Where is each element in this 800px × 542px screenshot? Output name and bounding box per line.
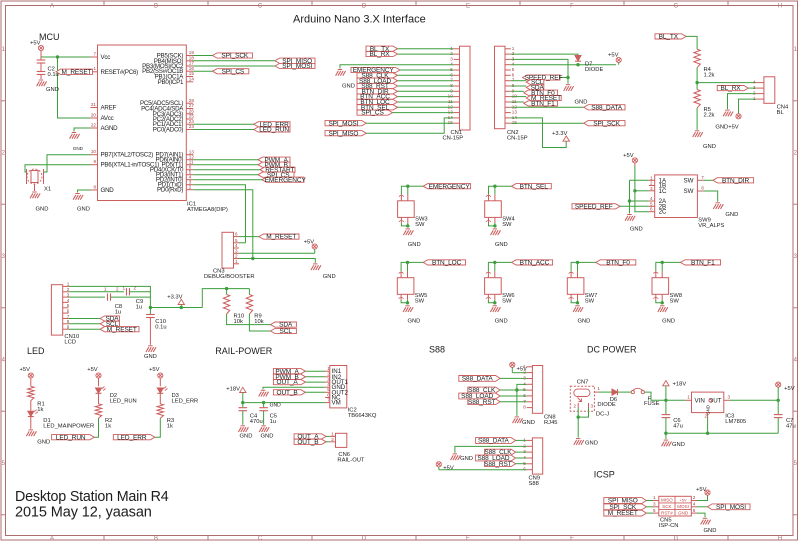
svg-text:EMERGENCY: EMERGENCY	[429, 183, 471, 190]
svg-text:BL: BL	[777, 110, 785, 116]
svg-text:1u: 1u	[136, 304, 142, 310]
svg-text:RJ45: RJ45	[544, 420, 558, 426]
svg-text:GND: GND	[261, 433, 274, 439]
svg-text:SPI_MOSI: SPI_MOSI	[282, 63, 312, 70]
svg-text:5: 5	[650, 201, 653, 206]
svg-text:GND: GND	[144, 354, 157, 360]
svg-text:SPI_MISO: SPI_MISO	[328, 130, 358, 137]
svg-text:5: 5	[653, 508, 656, 513]
svg-text:VIN: VIN	[695, 398, 705, 405]
svg-text:MOSI: MOSI	[677, 504, 689, 509]
svg-text:1: 1	[687, 395, 690, 400]
svg-text:8: 8	[93, 185, 96, 190]
svg-text:+5V: +5V	[149, 367, 160, 373]
svg-text:SCK: SCK	[662, 504, 672, 509]
svg-text:4: 4	[753, 80, 756, 85]
svg-text:23: 23	[189, 124, 195, 129]
svg-text:+5V: +5V	[623, 153, 634, 159]
svg-text:SCL: SCL	[280, 328, 293, 335]
svg-text:SPI_SCK: SPI_SCK	[221, 53, 249, 60]
svg-text:GND: GND	[37, 439, 50, 445]
svg-text:+5V: +5V	[696, 487, 707, 493]
svg-text:2: 2	[134, 285, 137, 290]
svg-text:AREF: AREF	[101, 105, 117, 112]
svg-text:SPI_CS: SPI_CS	[222, 68, 245, 75]
svg-text:GND: GND	[522, 420, 535, 426]
svg-text:2: 2	[705, 414, 708, 419]
svg-text:GND: GND	[575, 100, 588, 106]
svg-text:GND: GND	[495, 242, 508, 248]
svg-text:S88_RST: S88_RST	[484, 461, 512, 468]
svg-text:17: 17	[189, 61, 195, 66]
svg-text:SPI_MOSI: SPI_MOSI	[716, 504, 746, 511]
svg-text:7: 7	[327, 397, 330, 402]
svg-text:SPI_MOSI: SPI_MOSI	[328, 120, 358, 127]
svg-text:ATMEGA8(DIP): ATMEGA8(DIP)	[187, 207, 228, 213]
svg-text:SW: SW	[415, 299, 425, 305]
svg-text:SPEED_REF: SPEED_REF	[575, 203, 613, 210]
svg-text:BTN_F1: BTN_F1	[691, 260, 715, 267]
svg-text:1u: 1u	[115, 309, 121, 315]
svg-text:GND: GND	[101, 187, 115, 194]
svg-text:+5V: +5V	[443, 466, 454, 472]
svg-text:A: A	[50, 536, 54, 542]
svg-text:S88: S88	[529, 481, 539, 487]
svg-text:2.2k: 2.2k	[704, 113, 715, 119]
svg-text:1: 1	[123, 285, 126, 290]
svg-text:DC-J: DC-J	[596, 412, 609, 418]
svg-text:+5V: +5V	[20, 367, 31, 373]
svg-text:1.2k: 1.2k	[704, 73, 715, 79]
svg-text:BL_TX: BL_TX	[659, 34, 679, 41]
svg-text:SPI_CS: SPI_CS	[361, 110, 384, 117]
svg-text:2: 2	[523, 443, 526, 448]
svg-text:FUSE: FUSE	[644, 401, 660, 407]
svg-text:MCU: MCU	[39, 32, 60, 42]
svg-text:AVcc: AVcc	[101, 115, 114, 122]
svg-text:14: 14	[189, 77, 195, 82]
svg-text:LM7805: LM7805	[725, 419, 746, 425]
svg-text:+18V: +18V	[673, 381, 687, 387]
svg-text:S88: S88	[429, 345, 445, 355]
svg-text:S88_DATA: S88_DATA	[462, 376, 494, 383]
svg-text:GND: GND	[704, 528, 717, 534]
svg-text:EMERGENCY: EMERGENCY	[265, 177, 307, 184]
svg-text:4: 4	[67, 298, 70, 303]
svg-text:OUT_B: OUT_B	[297, 439, 318, 446]
svg-text:13: 13	[512, 110, 518, 115]
svg-text:8: 8	[701, 186, 704, 191]
svg-text:+5V: +5V	[304, 240, 315, 246]
svg-text:GND: GND	[495, 319, 508, 325]
svg-text:9: 9	[93, 159, 96, 164]
svg-text:MISO: MISO	[661, 497, 673, 502]
svg-text:47u: 47u	[786, 423, 796, 429]
svg-text:3: 3	[753, 85, 756, 90]
svg-text:A: A	[50, 3, 54, 9]
svg-text:PB0(ICP1: PB0(ICP1	[158, 79, 184, 86]
svg-text:BTN_SEL: BTN_SEL	[520, 183, 549, 190]
svg-text:6: 6	[693, 508, 696, 513]
svg-text:D: D	[362, 536, 367, 542]
svg-text:6: 6	[235, 232, 238, 237]
svg-text:0.1u: 0.1u	[155, 324, 166, 330]
svg-text:2: 2	[650, 181, 653, 186]
svg-text:LED_RUN: LED_RUN	[259, 127, 289, 134]
svg-text:+5V: +5V	[679, 497, 687, 502]
svg-text:1: 1	[523, 364, 526, 369]
svg-text:2: 2	[331, 437, 334, 442]
svg-text:BTN_F1: BTN_F1	[531, 100, 555, 107]
svg-text:DEBUG/BOOSTER: DEBUG/BOOSTER	[204, 274, 255, 280]
svg-text:1: 1	[597, 386, 600, 391]
svg-text:GND: GND	[577, 319, 590, 325]
svg-text:+3.3V: +3.3V	[167, 294, 182, 300]
svg-text:LED_ERR: LED_ERR	[172, 398, 199, 404]
svg-text:LED: LED	[27, 346, 45, 356]
svg-text:DC POWER: DC POWER	[587, 345, 637, 355]
svg-text:OUT_B: OUT_B	[277, 389, 298, 396]
svg-text:VM: VM	[332, 400, 341, 407]
svg-text:GND: GND	[73, 146, 84, 151]
svg-text:DIODE: DIODE	[585, 67, 603, 73]
svg-text:4: 4	[650, 196, 653, 201]
svg-text:SPI_SCK: SPI_SCK	[593, 120, 621, 127]
svg-text:GND: GND	[460, 456, 473, 462]
svg-text:GND: GND	[630, 227, 643, 233]
svg-text:H: H	[778, 536, 782, 542]
svg-text:S88_DATA: S88_DATA	[478, 438, 510, 445]
svg-text:PB7(XTAL2/TOSC2): PB7(XTAL2/TOSC2)	[101, 152, 154, 159]
svg-text:RESET#(PC6): RESET#(PC6)	[101, 69, 139, 76]
svg-text:GND: GND	[678, 510, 689, 515]
svg-text:1: 1	[512, 46, 515, 51]
svg-text:20: 20	[91, 113, 97, 118]
svg-text:PD0(RxD): PD0(RxD)	[157, 187, 183, 194]
svg-text:BL_RX: BL_RX	[369, 51, 390, 58]
svg-text:3: 3	[650, 186, 653, 191]
svg-text:6: 6	[512, 72, 515, 77]
svg-text:PC0(ADC0): PC0(ADC0)	[153, 127, 184, 134]
svg-text:SW: SW	[670, 299, 680, 305]
svg-text:SW: SW	[585, 299, 595, 305]
svg-text:1C: 1C	[659, 188, 667, 195]
svg-text:SW: SW	[684, 188, 694, 195]
svg-text:3: 3	[728, 395, 731, 400]
svg-text:GND: GND	[323, 274, 336, 280]
svg-text:+5V: +5V	[608, 53, 619, 59]
svg-text:7: 7	[701, 175, 704, 180]
svg-text:DIODE: DIODE	[597, 402, 615, 408]
svg-text:CN7: CN7	[577, 380, 589, 386]
svg-text:6: 6	[650, 207, 653, 212]
svg-text:GND: GND	[77, 207, 90, 213]
svg-text:C: C	[258, 3, 263, 9]
svg-text:GND: GND	[672, 442, 685, 448]
svg-text:AGND: AGND	[101, 125, 119, 132]
svg-text:10k: 10k	[254, 319, 263, 325]
svg-text:5: 5	[67, 303, 70, 308]
svg-text:SW: SW	[415, 222, 425, 228]
svg-text:GND: GND	[408, 242, 421, 248]
svg-text:S88_DATA: S88_DATA	[591, 104, 623, 111]
svg-text:3: 3	[450, 56, 453, 61]
svg-text:RST#: RST#	[661, 510, 673, 515]
svg-text:CN-15P: CN-15P	[443, 136, 464, 142]
svg-text:GND: GND	[703, 144, 716, 150]
svg-text:SW: SW	[684, 177, 694, 184]
svg-text:M_RESET: M_RESET	[61, 69, 91, 76]
svg-text:+18V: +18V	[226, 387, 240, 393]
svg-text:LCD: LCD	[64, 340, 76, 346]
svg-text:1: 1	[235, 259, 238, 264]
svg-text:7: 7	[93, 52, 96, 57]
svg-text:2: 2	[116, 287, 119, 292]
svg-text:SW: SW	[502, 222, 512, 228]
svg-text:+5V: +5V	[87, 367, 98, 373]
svg-text:6: 6	[523, 393, 526, 398]
svg-text:LED_RUN: LED_RUN	[110, 398, 137, 404]
svg-text:SW: SW	[502, 299, 512, 305]
svg-text:GND: GND	[240, 433, 253, 439]
svg-text:G: G	[674, 3, 679, 9]
svg-text:4: 4	[523, 381, 526, 386]
svg-text:4: 4	[235, 243, 238, 248]
svg-text:1k: 1k	[167, 423, 173, 429]
svg-text:1: 1	[104, 287, 107, 292]
svg-text:15: 15	[189, 71, 195, 76]
svg-text:X1: X1	[44, 187, 51, 193]
svg-text:1: 1	[331, 431, 334, 436]
svg-text:GND: GND	[270, 402, 282, 408]
svg-text:GND+5V: GND+5V	[715, 125, 738, 131]
svg-text:RAIL-POWER: RAIL-POWER	[215, 346, 273, 356]
svg-text:22: 22	[91, 123, 97, 128]
svg-text:BL_RX: BL_RX	[720, 85, 741, 92]
svg-text:GND: GND	[407, 319, 420, 325]
svg-text:BTN_ACC: BTN_ACC	[520, 260, 550, 267]
svg-text:GND: GND	[36, 207, 49, 213]
svg-text:RAIL-OUT: RAIL-OUT	[337, 458, 365, 464]
svg-text:2: 2	[327, 372, 330, 377]
svg-text:21: 21	[91, 102, 97, 107]
svg-text:3: 3	[653, 502, 656, 507]
svg-text:Vcc: Vcc	[101, 54, 111, 61]
svg-text:10k: 10k	[234, 319, 243, 325]
svg-text:19: 19	[189, 50, 195, 55]
svg-text:ISP-CN: ISP-CN	[659, 523, 679, 529]
svg-text:470u: 470u	[250, 419, 263, 425]
svg-text:Arduino Nano 3.X Interface: Arduino Nano 3.X Interface	[293, 14, 426, 26]
svg-text:BTN_F0: BTN_F0	[606, 260, 630, 267]
svg-text:E: E	[466, 3, 470, 9]
svg-text:BTN_DIR: BTN_DIR	[722, 177, 750, 184]
svg-text:+3.3V: +3.3V	[552, 131, 567, 137]
svg-text:S88_RST: S88_RST	[468, 399, 496, 406]
svg-text:GND: GND	[725, 212, 738, 218]
svg-text:2: 2	[235, 254, 238, 259]
svg-text:CN-15P: CN-15P	[507, 136, 528, 142]
svg-text:4: 4	[693, 502, 696, 507]
svg-text:3: 3	[591, 403, 594, 408]
svg-text:10: 10	[91, 149, 97, 154]
svg-text:Desktop Station Main R4: Desktop Station Main R4	[15, 489, 169, 505]
svg-text:1k: 1k	[37, 407, 43, 413]
svg-text:E: E	[466, 536, 470, 542]
svg-text:GND: GND	[342, 84, 355, 90]
svg-text:M_RESET: M_RESET	[608, 510, 638, 517]
svg-text:B: B	[154, 3, 158, 9]
svg-text:8: 8	[523, 405, 526, 410]
svg-text:2: 2	[523, 370, 526, 375]
svg-text:25: 25	[189, 114, 195, 119]
svg-text:M_RESET: M_RESET	[107, 326, 137, 333]
svg-text:LED_MAINPOWER: LED_MAINPOWER	[43, 423, 94, 429]
svg-text:2015 May 12, yaasan: 2015 May 12, yaasan	[15, 505, 152, 521]
svg-text:1: 1	[653, 495, 656, 500]
svg-text:1k: 1k	[105, 423, 111, 429]
svg-text:2: 2	[189, 184, 192, 189]
svg-text:B: B	[154, 536, 158, 542]
svg-text:M_RESET: M_RESET	[266, 234, 296, 241]
svg-text:+5V: +5V	[784, 386, 795, 392]
svg-text:47u: 47u	[673, 423, 683, 429]
svg-text:2: 2	[693, 495, 696, 500]
svg-text:VR_ALPS: VR_ALPS	[698, 223, 724, 229]
svg-text:5: 5	[512, 67, 515, 72]
svg-text:F: F	[570, 536, 574, 542]
svg-text:+5V: +5V	[30, 41, 41, 47]
svg-text:F: F	[570, 3, 574, 9]
svg-text:GND: GND	[46, 87, 59, 93]
svg-text:BTN_LOC: BTN_LOC	[432, 260, 462, 267]
svg-text:H: H	[778, 3, 782, 9]
svg-text:OUT_A: OUT_A	[277, 379, 299, 386]
svg-text:1u: 1u	[270, 419, 276, 425]
svg-text:D: D	[362, 3, 367, 9]
svg-text:G: G	[674, 536, 679, 542]
svg-text:GND: GND	[585, 440, 598, 446]
svg-text:2C: 2C	[659, 209, 667, 216]
svg-text:27: 27	[189, 103, 195, 108]
svg-text:C: C	[258, 536, 263, 542]
svg-text:LED_RUN: LED_RUN	[56, 434, 86, 441]
svg-text:TB6643KQ: TB6643KQ	[348, 413, 377, 419]
svg-text:OUT: OUT	[708, 398, 721, 405]
svg-text:LED_ERR: LED_ERR	[117, 434, 147, 441]
svg-text:ICSP: ICSP	[594, 470, 615, 480]
svg-text:GND: GND	[662, 319, 675, 325]
svg-text:6: 6	[67, 308, 70, 313]
svg-text:1: 1	[93, 66, 96, 71]
svg-text:1: 1	[327, 366, 330, 371]
svg-text:2: 2	[574, 403, 577, 408]
